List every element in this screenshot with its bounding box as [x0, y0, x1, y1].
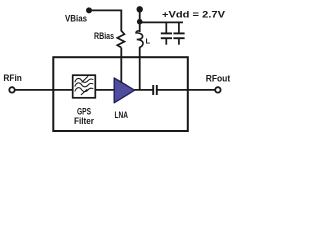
- svg-text:RBias: RBias: [94, 31, 114, 41]
- svg-text:VBias: VBias: [65, 13, 87, 23]
- svg-text:L: L: [146, 36, 151, 45]
- svg-text:LNA: LNA: [114, 110, 128, 120]
- svg-text:RFin: RFin: [3, 73, 22, 83]
- svg-text:GPS: GPS: [77, 106, 91, 116]
- svg-text:RFout: RFout: [206, 73, 231, 83]
- svg-text:+Vdd = 2.7V: +Vdd = 2.7V: [162, 9, 225, 19]
- svg-text:Filter: Filter: [74, 116, 94, 126]
